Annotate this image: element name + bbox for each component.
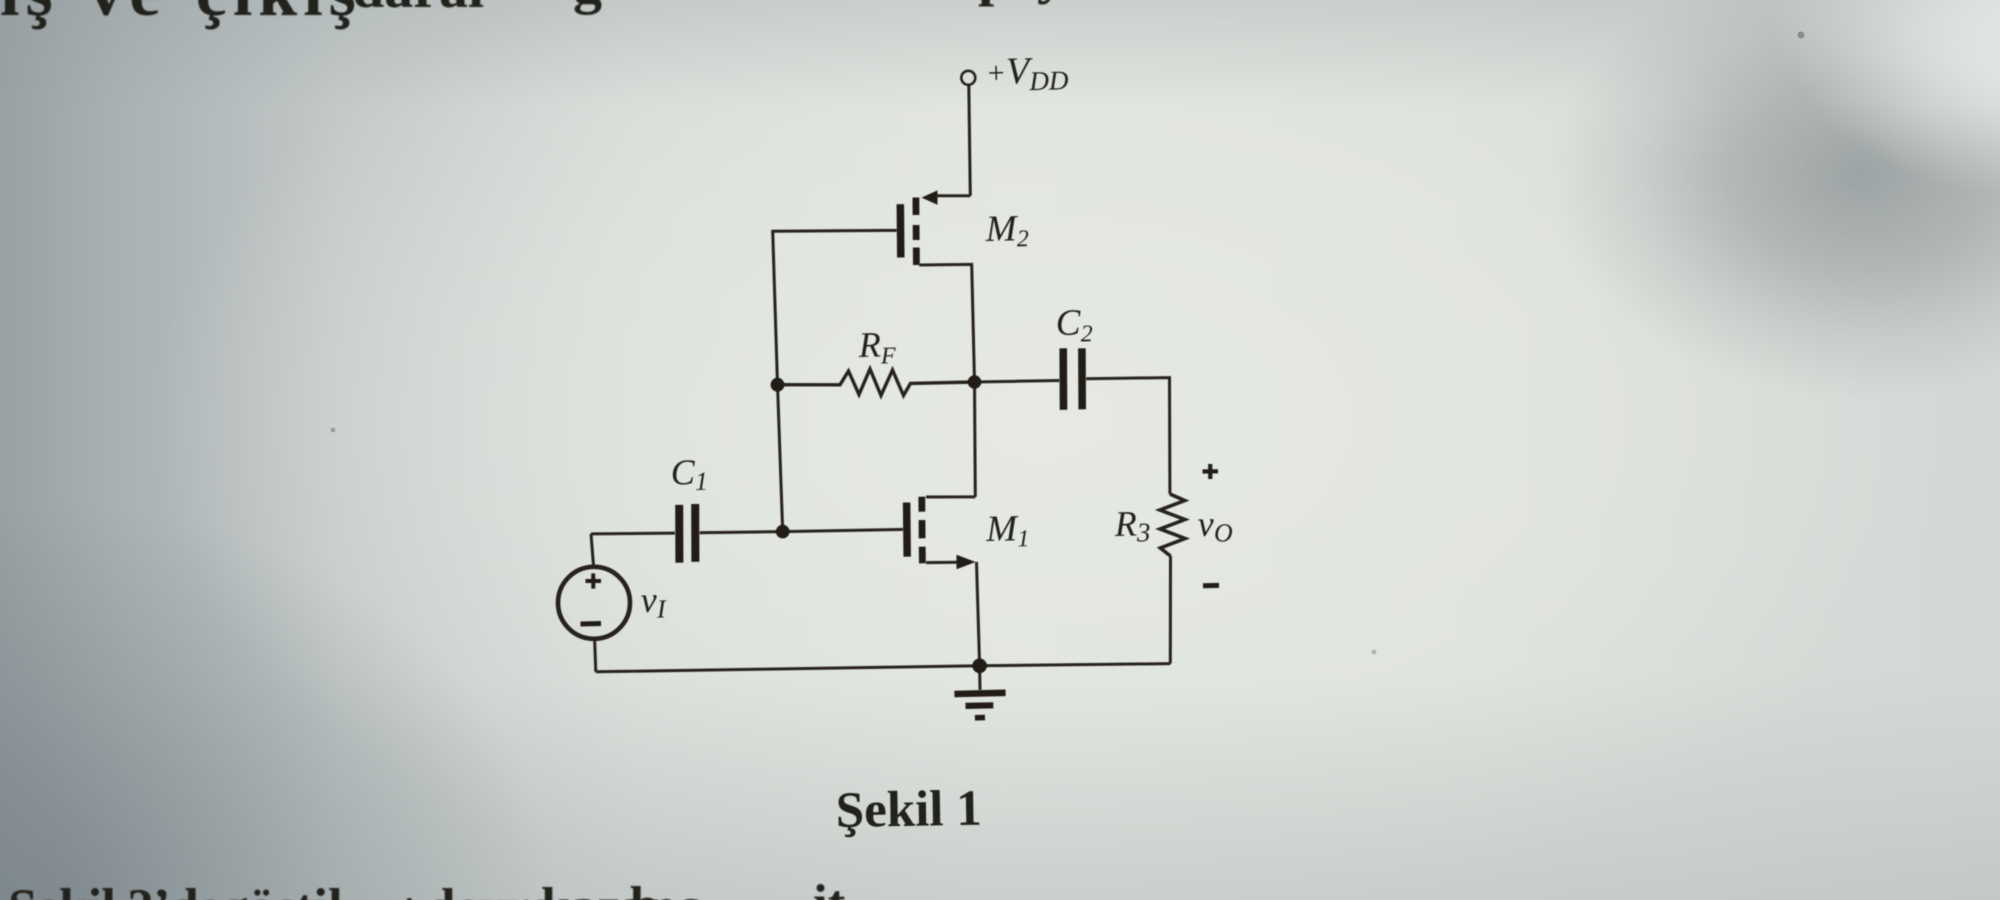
svg-text:b: b <box>630 877 659 900</box>
svg-text:kazanç: kazanç <box>541 878 700 900</box>
svg-text:Şekil 2’de: Şekil 2’de <box>8 879 221 900</box>
svg-text:ış ve çıkış: ış ve çıkış <box>0 0 362 31</box>
svg-text:daral: daral <box>352 0 484 20</box>
svg-text:t: t <box>400 882 418 900</box>
svg-text:Şekil 1: Şekil 1 <box>835 781 982 839</box>
svg-text:p: p <box>978 0 1010 7</box>
svg-text:y: y <box>1037 0 1066 5</box>
svg-text:göstil: göstil <box>222 879 343 900</box>
svg-text:ğ: ğ <box>573 0 602 15</box>
svg-text:devre: devre <box>426 879 552 900</box>
svg-text:it: it <box>813 875 846 900</box>
